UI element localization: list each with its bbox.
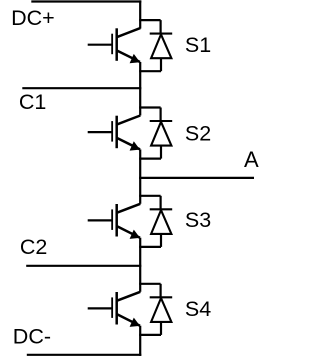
transistor S2 IGBT bbox=[88, 116, 141, 151]
wire: spine S2 emitter through node A to S3 collector bbox=[139, 149, 141, 203]
svg-text:S4: S4 bbox=[185, 297, 211, 321]
diode D1 antiparallel with S1 bbox=[139, 20, 172, 71]
svg-text:S1: S1 bbox=[185, 33, 211, 57]
wire: C2 rail bbox=[26, 265, 141, 267]
wire: DC- bottom rail bbox=[27, 354, 142, 356]
diode D3 antiparallel with S3 bbox=[139, 196, 172, 247]
svg-text:S2: S2 bbox=[185, 121, 211, 145]
wire: spine S3 emitter through C2 node to S4 collector bbox=[139, 238, 141, 292]
wire: DC+ top rail bbox=[31, 0, 141, 2]
svg-text:C1: C1 bbox=[19, 90, 46, 114]
wire: C1 rail bbox=[22, 87, 141, 89]
transistor S3 IGBT bbox=[88, 204, 141, 239]
wire: spine S4 emitter down to DC- rail bbox=[139, 326, 141, 356]
wire: spine S1 emitter through C1 node to S2 collector bbox=[139, 62, 141, 116]
diode D4 antiparallel with S4 bbox=[139, 284, 172, 335]
svg-text:DC+: DC+ bbox=[11, 6, 55, 30]
svg-text:A: A bbox=[244, 147, 259, 172]
svg-text:C2: C2 bbox=[20, 235, 47, 259]
wire: phase output rail node A bbox=[139, 177, 254, 179]
transistor S4 IGBT bbox=[88, 292, 141, 327]
transistor S1 IGBT bbox=[88, 28, 141, 63]
svg-text:S3: S3 bbox=[185, 208, 211, 232]
wire: spine from DC+ rail down to S1 collector junction bbox=[139, 0, 141, 28]
diode D2 antiparallel with S2 bbox=[139, 108, 172, 159]
svg-text:DC-: DC- bbox=[13, 325, 51, 349]
